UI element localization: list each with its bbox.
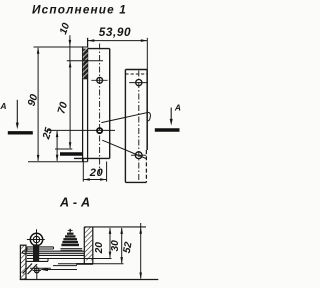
section dim 20 line <box>109 228 111 258</box>
extension line y258.6 <box>27 258 112 260</box>
top hole of main plate <box>97 77 103 83</box>
left strip outer edge <box>82 46 84 161</box>
dim 10 upper outside arrow <box>69 35 71 62</box>
right plate bottom edge <box>125 181 146 183</box>
bottom extension line y161.7 <box>28 161 88 163</box>
svg-text:20: 20 <box>94 242 105 255</box>
section marker right thick bar <box>155 128 180 131</box>
extension line top-left (90/10 dims reference) <box>34 46 88 48</box>
bolt washer target circle inner <box>33 236 39 242</box>
bolt shank dark block <box>33 244 39 261</box>
right plate top hole <box>136 80 142 86</box>
dim 25 top arrowhead <box>56 131 59 138</box>
section dim 52 line <box>140 223 142 279</box>
lower bolt horizontal tick <box>33 270 41 272</box>
dim 90 line <box>37 48 39 161</box>
right plate bottom hole crosshair <box>131 154 146 156</box>
svg-text:53,90: 53,90 <box>99 25 131 39</box>
extension line y128.5 left <box>47 129 115 131</box>
section plate strip left edge <box>83 227 85 264</box>
dim 70 line (shared arrows with 10) <box>69 62 71 149</box>
main plate bottom edge <box>74 157 110 159</box>
target circle vertical crosshair <box>36 229 38 250</box>
dim 53,90 right extension line <box>146 38 148 70</box>
right plate right edge upper solid <box>146 70 148 151</box>
right plate vertical centerline (dash-dot) <box>138 71 140 182</box>
main plate right edge <box>109 49 111 159</box>
background paper <box>0 0 184 288</box>
middle hole of main plate (bold ring) <box>97 128 102 133</box>
inner step line y60.7 <box>67 60 103 62</box>
svg-text:A: A <box>174 103 181 113</box>
lower bracket diagonal 1 <box>23 264 32 274</box>
extension line y263.8 <box>58 263 124 265</box>
leader arrow into lower bolt <box>39 268 48 271</box>
svg-text:30: 30 <box>110 240 121 252</box>
dim 90 bottom arrowhead <box>37 155 40 162</box>
svg-text:A: A <box>0 101 7 111</box>
lower bracket horizontal line <box>30 267 51 269</box>
lower bolt small circle <box>35 268 40 273</box>
dome stack discs <box>67 233 74 235</box>
leader line L1 <box>102 140 146 158</box>
hatch of left strip (upper part) <box>83 49 87 80</box>
svg-text:Исполнение 1: Исполнение 1 <box>32 3 127 17</box>
lower bracket diagonal 2 <box>28 264 37 274</box>
svg-text:52: 52 <box>122 241 135 254</box>
strip bottom thick piece <box>76 263 93 265</box>
right plate top edge <box>125 69 147 71</box>
right plate right edge lower dashed <box>145 150 147 182</box>
right plate top hole crosshair <box>129 82 148 84</box>
right plate left edge <box>124 70 126 183</box>
dome base plate lines <box>61 248 83 250</box>
left strip inner edge / plate left edge <box>87 38 89 162</box>
dim 70 top arrowhead <box>69 61 72 68</box>
bolt horizontal bars <box>27 246 54 248</box>
lower bolt vertical line <box>36 266 38 279</box>
bolt bar end connectors <box>26 247 28 251</box>
dim 25 line <box>56 131 58 161</box>
right plate hidden fold line (dashed) <box>125 73 147 75</box>
svg-text:A - A: A - A <box>59 196 90 210</box>
section marker right arrow <box>170 108 172 122</box>
leader line L0 with hook <box>101 112 150 122</box>
bolt washer target circle outer <box>30 233 42 245</box>
dome stack pin <box>69 229 71 233</box>
dim 20 arrowheads <box>83 178 90 181</box>
right plate bottom hole <box>135 152 142 159</box>
wall strip in section <box>20 245 26 279</box>
dim 25 bottom arrowhead <box>56 155 59 162</box>
dim 53,90 left arrowhead <box>88 39 95 42</box>
svg-text:20: 20 <box>89 167 104 179</box>
section plate strip right edge <box>92 227 94 264</box>
section plane middle thick bar <box>60 152 83 155</box>
section marker left arrow <box>16 100 18 125</box>
dim 20 bottom: extension lines <box>82 159 84 182</box>
section dim 30 line <box>121 228 123 263</box>
dim 53,90 right arrowhead <box>141 39 148 42</box>
top hole horizontal crosshair <box>91 79 107 81</box>
main plate top edge <box>88 48 110 50</box>
section marker left thick bar <box>8 131 33 134</box>
dim 53,90 line <box>88 40 148 42</box>
dim 20 line <box>83 179 106 181</box>
section top extension line <box>84 226 146 228</box>
dim 90 top arrowhead <box>37 47 40 54</box>
section plate strip hatch <box>85 227 93 260</box>
section bottom long extension line <box>20 279 159 281</box>
dim 70 bottom arrowhead <box>69 142 72 149</box>
extension line y149 <box>55 148 72 150</box>
main plate vertical centerline (dash-dot) <box>99 44 101 175</box>
target circle horizontal crosshair <box>27 239 45 241</box>
